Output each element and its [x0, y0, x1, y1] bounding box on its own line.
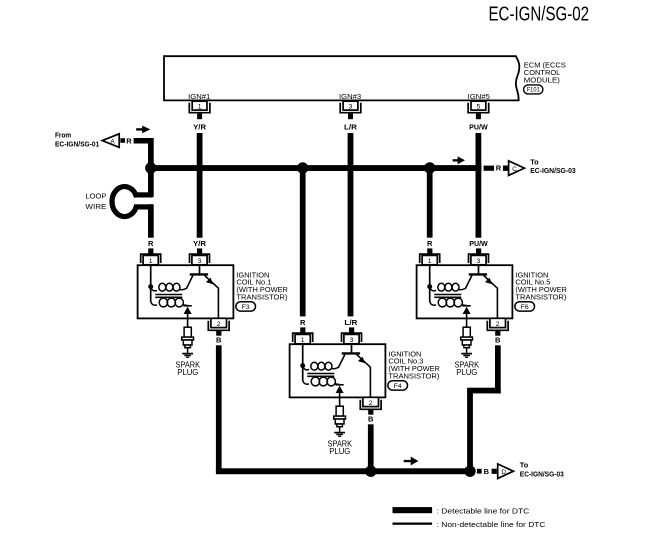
- connector F101: [524, 85, 543, 94]
- flow arrow on B bus: [404, 457, 419, 466]
- legend non-detectable line: [393, 523, 433, 525]
- junction node coil5 B: [464, 466, 475, 477]
- ECM pin IGN#1: [188, 92, 210, 132]
- B bus horizontal: [216, 468, 473, 474]
- svg-text:PU/W: PU/W: [469, 123, 488, 132]
- svg-text:F101: F101: [527, 87, 541, 94]
- wire Y/R IGN#1 to coil No.1: [197, 133, 203, 238]
- svg-text:EC-IGN/SG-03: EC-IGN/SG-03: [530, 166, 576, 175]
- svg-text:: Non-detectable line for DTC: : Non-detectable line for DTC: [437, 520, 547, 529]
- svg-text:IGN#5: IGN#5: [468, 92, 490, 101]
- wire node A to bus: [134, 138, 150, 144]
- coil No.3 description: [388, 349, 440, 380]
- svg-text:B: B: [484, 467, 490, 476]
- node D to EC-IGN/SG-03: [477, 461, 564, 479]
- svg-text:LOOP: LOOP: [85, 192, 106, 201]
- svg-text:L/R: L/R: [344, 318, 358, 327]
- svg-text:EC-IGN/SG-01: EC-IGN/SG-01: [55, 140, 99, 149]
- svg-text:Y/R: Y/R: [193, 123, 207, 132]
- svg-text:: Detectable line for DTC: : Detectable line for DTC: [437, 506, 530, 515]
- ECM (ECCS control module) box: [164, 56, 519, 100]
- ignition coil No.5 F6: [417, 239, 513, 377]
- svg-text:L/R: L/R: [344, 123, 358, 132]
- wire L/R IGN#3 to coil No.3: [348, 133, 354, 316]
- wire B coil No.5 elbow: [495, 345, 501, 393]
- flow arrow at node A: [136, 126, 150, 134]
- svg-text:F4: F4: [394, 383, 402, 390]
- coil No.5 description: [515, 270, 567, 301]
- node A arrow from EC-IGN/SG-01: [55, 130, 132, 148]
- svg-text:EC-IGN/SG-02: EC-IGN/SG-02: [489, 4, 590, 26]
- wire PU/W IGN#5 to coil No.5: [476, 133, 482, 238]
- flow arrow before node C: [453, 156, 465, 164]
- coil No.1 description: [236, 270, 288, 301]
- node C to EC-IGN/SG-03: [484, 157, 576, 175]
- svg-text:TRANSISTOR): TRANSISTOR): [236, 292, 288, 301]
- svg-text:R: R: [126, 136, 132, 145]
- junction node coil3 R: [297, 162, 308, 173]
- ECM pin IGN#5: [468, 92, 490, 132]
- svg-text:EC-IGN/SG-03: EC-IGN/SG-03: [520, 470, 564, 479]
- svg-text:5: 5: [477, 103, 481, 110]
- wire R bus to coil No.5 pin1: [427, 168, 433, 238]
- svg-text:Y/R: Y/R: [193, 239, 207, 248]
- svg-text:3: 3: [349, 103, 353, 110]
- ignition coil No.1 F3: [138, 239, 234, 377]
- svg-text:To: To: [520, 461, 529, 470]
- svg-text:IGN#3: IGN#3: [339, 92, 361, 101]
- svg-text:From: From: [55, 130, 71, 139]
- svg-text:C: C: [512, 166, 517, 173]
- svg-text:F3: F3: [242, 304, 250, 311]
- junction node coil5 R: [424, 162, 435, 173]
- wire B coil No.1 to bottom bus: [216, 345, 222, 471]
- svg-text:R: R: [496, 164, 502, 173]
- connector F6: [515, 302, 535, 311]
- ECM pin IGN#3: [339, 92, 361, 132]
- svg-text:1: 1: [198, 103, 202, 110]
- svg-text:MODULE): MODULE): [524, 75, 561, 84]
- svg-text:TRANSISTOR): TRANSISTOR): [515, 292, 567, 301]
- svg-text:PU/W: PU/W: [469, 239, 488, 248]
- legend detectable line: [393, 507, 433, 513]
- svg-text:IGN#1: IGN#1: [188, 92, 210, 101]
- connector F3: [236, 302, 256, 311]
- wire R bus to coil No.3 pin1: [300, 168, 306, 316]
- svg-text:A: A: [110, 138, 115, 145]
- loop wire: [112, 170, 154, 238]
- svg-text:WIRE: WIRE: [85, 202, 106, 211]
- ignition coil No.3 F4: [290, 318, 386, 456]
- wire B coil No.3 to bottom bus: [368, 424, 374, 471]
- svg-text:To: To: [530, 157, 539, 166]
- junction node coil3 B: [365, 466, 376, 477]
- connector F4: [388, 381, 408, 390]
- svg-text:F6: F6: [521, 304, 529, 311]
- svg-text:D: D: [501, 469, 506, 476]
- junction node left: [145, 162, 156, 173]
- svg-text:TRANSISTOR): TRANSISTOR): [388, 371, 440, 380]
- R bus horizontal: [148, 165, 482, 171]
